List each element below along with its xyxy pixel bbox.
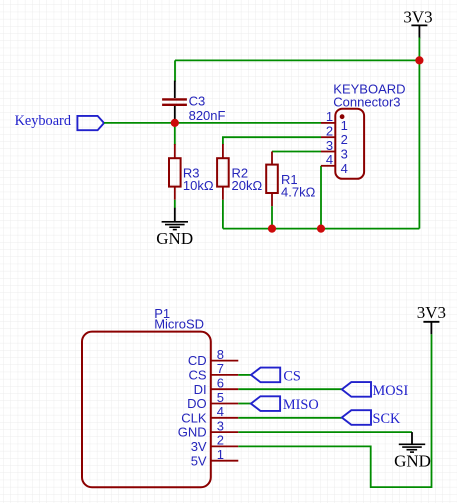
connector P1 MicroSD <box>82 306 211 487</box>
power symbol 3V3 (bottom) <box>417 303 446 334</box>
ground GND (top) <box>156 208 193 248</box>
junction at 3V3 rail <box>415 56 423 64</box>
ground GND (bottom) <box>394 432 431 470</box>
resistor R2 <box>217 144 229 200</box>
svg-text:CD: CD <box>188 353 207 368</box>
svg-text:GND: GND <box>178 425 207 440</box>
svg-text:1: 1 <box>326 109 333 124</box>
pin 2 stub <box>321 136 335 138</box>
wire 3V net <box>238 334 431 487</box>
capacitor C3 <box>162 81 187 121</box>
wire R2 to rail <box>222 200 224 229</box>
svg-text:8: 8 <box>217 347 224 362</box>
pin 5 stub <box>211 403 239 405</box>
junction C3/R3/Keyboard <box>171 119 179 127</box>
svg-text:3: 3 <box>217 418 224 433</box>
wire DI to MOSI <box>238 388 341 390</box>
svg-text:4: 4 <box>326 152 333 167</box>
svg-text:3: 3 <box>341 147 348 162</box>
svg-text:MOSI: MOSI <box>373 383 409 399</box>
svg-text:5: 5 <box>217 390 224 405</box>
svg-text:MicroSD: MicroSD <box>154 316 204 331</box>
svg-text:820nF: 820nF <box>189 108 226 123</box>
svg-text:GND: GND <box>394 451 431 470</box>
junction R1/rail <box>268 225 276 233</box>
svg-text:Keyboard: Keyboard <box>15 113 71 129</box>
pin 8 stub <box>211 360 239 362</box>
power symbol 3V3 (top) <box>403 7 432 38</box>
svg-text:10kΩ: 10kΩ <box>183 178 214 193</box>
svg-text:MISO: MISO <box>283 397 319 413</box>
wire C3 branch <box>174 60 176 81</box>
resistor R1 <box>266 152 278 207</box>
svg-text:DO: DO <box>187 396 207 411</box>
wire 3V3 to junction <box>418 38 420 61</box>
svg-text:4: 4 <box>217 404 224 419</box>
pin 3 stub <box>211 431 239 433</box>
wire bottom rail <box>223 228 420 230</box>
svg-text:20kΩ: 20kΩ <box>232 178 263 193</box>
pin 1 stub <box>211 460 239 462</box>
svg-text:7: 7 <box>217 361 224 376</box>
svg-text:3V: 3V <box>191 439 207 454</box>
global label SCK <box>342 410 401 427</box>
svg-text:CLK: CLK <box>181 410 207 425</box>
svg-text:CS: CS <box>189 368 207 383</box>
pin 1 stub <box>321 122 335 124</box>
svg-text:2: 2 <box>217 433 224 448</box>
wire CS <box>238 374 251 376</box>
wire right vertical <box>418 60 420 228</box>
svg-text:SCK: SCK <box>373 411 401 427</box>
pin 7 stub <box>211 374 239 376</box>
connector KEYBOARD Connector3 <box>333 81 405 179</box>
pin 3 stub <box>321 151 335 153</box>
wire pin4 drop <box>320 166 322 229</box>
svg-text:CS: CS <box>283 369 301 385</box>
resistor R3 <box>169 123 181 200</box>
svg-text:DI: DI <box>194 382 207 397</box>
svg-text:5V: 5V <box>191 453 207 468</box>
svg-text:3: 3 <box>326 138 333 153</box>
svg-text:3V3: 3V3 <box>403 7 432 26</box>
svg-text:4.7kΩ: 4.7kΩ <box>281 184 316 199</box>
wire Keyboard net <box>104 122 321 124</box>
pin 4 stub <box>321 165 335 167</box>
pin 2 stub <box>211 445 239 447</box>
wire R3 to GND <box>174 200 176 208</box>
global label MOSI <box>342 382 409 399</box>
svg-text:2: 2 <box>341 132 348 147</box>
svg-text:Connector3: Connector3 <box>333 95 400 110</box>
svg-text:2: 2 <box>326 124 333 139</box>
global label MISO <box>251 396 319 413</box>
svg-text:GND: GND <box>156 229 193 248</box>
svg-text:3V3: 3V3 <box>417 303 446 322</box>
global label Keyboard <box>15 113 104 130</box>
wire pin2 to R2 <box>223 137 321 145</box>
wire top rail <box>175 59 419 61</box>
wire DO to MISO <box>238 403 251 405</box>
junction pin4/rail <box>317 225 325 233</box>
svg-text:4: 4 <box>341 161 348 176</box>
pin 6 stub <box>211 388 239 390</box>
wire R1 to rail <box>271 206 273 228</box>
global label CS <box>251 368 301 385</box>
svg-text:1: 1 <box>217 447 224 462</box>
wire pin3 to R1 <box>272 151 321 153</box>
svg-text:6: 6 <box>217 376 224 391</box>
wire GND net <box>238 431 412 433</box>
svg-text:1: 1 <box>341 118 348 133</box>
pin 4 stub <box>211 417 239 419</box>
svg-text:C3: C3 <box>189 94 206 109</box>
wire CLK to SCK <box>238 417 341 419</box>
